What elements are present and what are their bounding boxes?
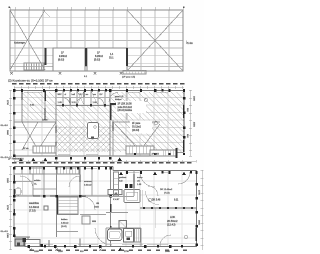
interior wall x110 — [109, 91, 111, 157]
stair hatch right — [126, 146, 154, 154]
left edge note b — [1, 157, 9, 159]
svg-text:2F Heimenzu: 2F Heimenzu — [8, 157, 24, 161]
band cell diagonals — [77, 91, 98, 105]
svg-text:3.31m2: 3.31m2 — [84, 185, 92, 187]
attic label left — [14, 41, 25, 45]
interior wall x127 — [126, 92, 128, 120]
dim tick line mid — [14, 160, 196, 163]
interior wall x22 — [21, 91, 23, 123]
door arc 1F bottom — [160, 235, 171, 246]
corner brace stub — [43, 10, 50, 17]
svg-text:20.50m2: 20.50m2 — [167, 219, 178, 223]
tick mark z — [10, 72, 13, 75]
attic room 2 — [87, 48, 127, 71]
wc fixture — [16, 188, 22, 195]
svg-text:(7.5J): (7.5J) — [164, 193, 170, 195]
wall bar A — [45, 48, 47, 65]
balcony band — [150, 150, 176, 156]
kitchen label — [113, 199, 120, 201]
door arc d — [109, 93, 118, 102]
svg-text:mono: mono — [137, 177, 143, 179]
svg-text:1820: 1820 — [193, 96, 195, 102]
svg-text:33.12m2: 33.12m2 — [132, 127, 142, 129]
kitchen counter — [108, 190, 140, 203]
svg-text:(1F yane 4.5): (1F yane 4.5) — [122, 77, 135, 79]
door arc 1F mono — [148, 186, 158, 196]
svg-text:2730: 2730 — [124, 251, 130, 253]
stairs 1F — [58, 197, 79, 215]
wall y228 bath — [106, 227, 141, 229]
right void V — [115, 124, 160, 151]
attic room 1 — [53, 48, 85, 71]
left rot dim 2F — [6, 100, 8, 136]
attic room1 label — [58, 52, 68, 62]
svg-text:2730: 2730 — [6, 205, 8, 211]
balcony dark bar — [176, 148, 178, 158]
floor marker sq — [119, 221, 127, 229]
left wall dark segs 1F — [13, 175, 15, 236]
wash label2 — [94, 203, 100, 209]
window line right top 1F — [128, 172, 168, 174]
svg-text:4550: 4550 — [193, 122, 195, 128]
svg-text:genkan: genkan — [119, 177, 127, 179]
dark beam bar — [110, 103, 122, 105]
stair hatch left — [33, 146, 56, 153]
dark wall seg right2 — [183, 140, 185, 152]
posts top wall 2F — [13, 89, 185, 92]
dark wall seg right1 — [183, 105, 185, 118]
genkan dark mark — [23, 238, 27, 242]
room labels 2F corridor — [58, 94, 103, 104]
interior wall x113 — [112, 120, 114, 156]
svg-text:12.43m2: 12.43m2 — [29, 205, 40, 209]
wall y196 genkan — [110, 196, 134, 198]
tick mark b — [94, 72, 97, 75]
closet hatch 1F a — [57, 167, 79, 174]
roof hatch center cross — [56, 126, 110, 152]
bottom tick marks — [29, 249, 102, 252]
circle mark 1F — [148, 198, 152, 202]
svg-text:2730: 2730 — [6, 100, 8, 106]
corridor wall y97 — [56, 97, 110, 99]
svg-text:hall: hall — [119, 181, 123, 183]
dk labels — [152, 200, 179, 202]
left dim line 1F — [9, 166, 12, 250]
svg-text:DK 12.43m2: DK 12.43m2 — [160, 189, 173, 191]
dim text row mid — [12, 162, 192, 164]
right rot dim 2F — [186, 96, 195, 138]
svg-text:WM: WM — [92, 221, 96, 223]
top plan title — [8, 79, 53, 83]
shoe strip — [114, 172, 119, 196]
wall x92 1F — [91, 170, 93, 196]
svg-text:oshiire: oshiire — [34, 179, 41, 182]
wall bar C — [126, 48, 128, 66]
room label LDK — [167, 215, 178, 227]
svg-text:WIC: WIC — [58, 94, 63, 96]
left void X — [22, 122, 56, 150]
2F outer wall top — [14, 90, 184, 92]
1F entry step bottom — [14, 236, 30, 238]
svg-text:12.88: 12.88 — [42, 120, 48, 122]
2F band dividers — [63, 91, 105, 106]
left rot dim 1F — [6, 178, 8, 239]
svg-text:3.31m2: 3.31m2 — [61, 223, 69, 225]
svg-text:3640: 3640 — [165, 251, 171, 253]
svg-text:3640: 3640 — [6, 130, 8, 136]
svg-text:GL+5.0: GL+5.0 — [1, 125, 9, 127]
hatch note left — [30, 105, 35, 107]
svg-text:K 4.97: K 4.97 — [113, 199, 120, 201]
1F outer wall top right — [113, 170, 197, 172]
posts y105 wall — [62, 104, 106, 106]
void top edge y122 left — [14, 121, 56, 123]
right dim line 2F — [189, 90, 192, 156]
posts left wall 2F — [13, 97, 16, 157]
closet hatch 1F b — [30, 167, 44, 174]
corridor wall y105 — [56, 105, 110, 107]
wall x22 lower — [21, 174, 23, 196]
faint module grid 1F — [14, 167, 196, 246]
roof hatch center — [56, 106, 110, 152]
genkan dark mark b — [17, 243, 20, 246]
2F outer wall left — [13, 91, 15, 158]
posts right wall 2F — [183, 97, 186, 138]
svg-text:3640: 3640 — [198, 220, 200, 226]
svg-text:(2) Koyabuse-zu (S=1:100) 2F u: (2) Koyabuse-zu (S=1:100) 2F ue — [8, 79, 53, 83]
posts left wall 1F — [13, 181, 16, 237]
window line top wall 1F — [31, 168, 97, 170]
circle mark 1F b — [184, 235, 188, 239]
1F outer wall right — [196, 171, 198, 248]
left X-brace — [10, 10, 45, 70]
2F bottom window lines — [58, 153, 98, 155]
corner mark NW — [9, 7, 11, 9]
roof grid horizontals — [10, 18, 183, 67]
svg-text:(5.0J): (5.0J) — [94, 59, 100, 62]
roof top ticks — [10, 7, 183, 10]
wall x30 1F — [29, 167, 31, 175]
1F outer wall left — [13, 167, 15, 238]
posts top wall 1F left — [13, 167, 112, 170]
door arc b — [76, 98, 84, 106]
wall y214 wash — [80, 214, 106, 216]
wall x80 1F — [79, 167, 81, 197]
svg-text:(12.4J): (12.4J) — [167, 223, 175, 227]
dim text row top — [12, 83, 185, 85]
porch post — [41, 244, 44, 247]
wall y181 left rooms — [14, 181, 33, 183]
posts right wall 1F — [195, 183, 198, 246]
wall x141 — [140, 228, 142, 247]
y196 wall dark segs — [33, 195, 86, 197]
1F outer wall bottom — [28, 246, 197, 248]
svg-text:9.11: 9.11 — [174, 200, 179, 202]
svg-text:koubai: koubai — [115, 99, 122, 101]
tick mark a — [59, 72, 62, 75]
window mullions bottom 1F — [49, 239, 80, 247]
posts top wall 1F right — [119, 171, 198, 175]
bathtub 1F — [108, 229, 123, 241]
door arc 1F wc — [69, 176, 80, 187]
1F outer wall top left — [14, 166, 113, 168]
svg-text:kaidan: kaidan — [61, 219, 68, 221]
posts kitchen wall — [143, 207, 193, 209]
svg-text:(20.0J) keisha: (20.0J) keisha — [118, 110, 133, 112]
svg-text:1820: 1820 — [58, 251, 64, 253]
shoe cabinet dark — [15, 239, 24, 246]
room label mono — [137, 177, 143, 186]
posts bottom wall 1F — [28, 245, 184, 251]
corner mark NE — [183, 7, 185, 9]
wall y189 left rooms — [33, 188, 56, 190]
interior wall x56 — [55, 91, 57, 157]
svg-text:yane 1.5: yane 1.5 — [115, 96, 124, 98]
room label 2F a — [115, 96, 124, 101]
door arc 1F right — [178, 172, 190, 184]
y196 wall posts — [13, 195, 112, 198]
eaves band note — [122, 77, 135, 79]
wall bar B — [85, 48, 87, 66]
bold label marks — [125, 184, 133, 188]
1F entry step side — [27, 237, 29, 247]
left edge note a — [1, 125, 9, 127]
roof hatch right — [110, 92, 184, 152]
wall y208 kitchen — [140, 207, 197, 209]
posts bottom wall 2F — [19, 153, 185, 161]
svg-text:hall: hall — [72, 94, 76, 96]
void label — [42, 120, 48, 122]
wall x110 1F — [110, 167, 112, 247]
roof border — [10, 10, 183, 71]
under-border note a — [84, 76, 88, 78]
wall x106 — [105, 228, 107, 247]
door arc a — [62, 98, 70, 106]
svg-text:senmen: senmen — [84, 181, 93, 183]
svg-text:UB: UB — [96, 203, 100, 205]
svg-text:(7.5J): (7.5J) — [29, 209, 36, 213]
room label stair 1F — [61, 219, 69, 228]
room label washitsu — [29, 201, 40, 213]
right dim line 1F — [201, 170, 204, 250]
svg-text:2730: 2730 — [198, 190, 200, 196]
dim line top — [14, 86, 184, 89]
svg-text:2F yane: 2F yane — [132, 123, 141, 125]
2F outer wall bottom — [14, 155, 176, 157]
wall y196 1F — [14, 195, 110, 197]
dark wall seg b — [110, 103, 112, 120]
svg-text:2F dn: 2F dn — [23, 148, 29, 150]
void top edge y122 right — [113, 121, 160, 123]
wall x22 1F — [21, 167, 23, 175]
wall x33 1F — [32, 174, 34, 196]
svg-text:washitsu: washitsu — [29, 201, 40, 205]
vanity 1F — [124, 229, 134, 243]
left dim line 2F — [9, 90, 12, 156]
bottom dim dash row — [30, 250, 187, 251]
attic ladder hatch — [24, 63, 44, 70]
tick mark c — [120, 72, 123, 75]
door arc 1F wash — [82, 197, 95, 210]
bottom dim text b — [124, 251, 171, 253]
svg-text:1820: 1820 — [6, 178, 8, 184]
window line bottom wall 1F — [44, 244, 168, 246]
wash label3 — [92, 221, 96, 223]
stair label 2F — [23, 148, 29, 150]
circle mark b — [144, 98, 147, 101]
roof hatch left — [22, 92, 56, 120]
wall x142 kitchen — [141, 190, 143, 208]
right wall dark seg — [195, 228, 197, 241]
laundry hatch — [135, 229, 141, 243]
svg-text:2F 4.55: 2F 4.55 — [152, 154, 160, 156]
mid plan title — [8, 157, 24, 161]
svg-text:DK 5.46: DK 5.46 — [152, 200, 161, 202]
room label hall1F — [113, 177, 127, 195]
bottom dim text a — [34, 251, 84, 253]
genkan box — [25, 240, 40, 247]
roof note right — [186, 41, 193, 46]
2F outer wall right — [183, 91, 185, 153]
2F top window lines — [24, 92, 168, 94]
wall y174 1F — [14, 173, 56, 175]
room label dining — [160, 189, 173, 195]
circle mark a — [154, 121, 158, 125]
attic room2 label b — [109, 54, 114, 60]
door arc 1F hall — [20, 176, 33, 189]
left edge note c — [1, 231, 9, 233]
tatami marker — [44, 206, 48, 210]
2F band dark segs — [70, 91, 84, 106]
attic room2 label — [94, 52, 104, 62]
svg-text:1365: 1365 — [6, 233, 8, 239]
right X-brace — [127, 10, 183, 71]
tub 2F — [88, 123, 99, 139]
2F wall bottom right — [155, 152, 184, 154]
2F big note block — [116, 101, 146, 113]
svg-text:2F LDK 16.56: 2F LDK 16.56 — [118, 104, 133, 106]
N-value note — [130, 121, 152, 134]
dark wall seg a — [44, 91, 46, 102]
svg-text:(20.0J): (20.0J) — [132, 130, 139, 132]
svg-text:1616: 1616 — [94, 207, 100, 209]
1F step x113 — [112, 167, 114, 171]
wall x134 1F — [133, 171, 135, 197]
door arc 1F kitchen — [140, 172, 155, 187]
door arc c — [96, 98, 104, 106]
washer rect — [82, 216, 90, 224]
wall x155 LDK — [154, 209, 156, 229]
svg-text:1820: 1820 — [34, 251, 40, 253]
eaves hatch band — [123, 71, 146, 75]
wall x44 1F — [43, 167, 45, 197]
wall x56 1F — [56, 167, 58, 238]
door arc 1F dining — [146, 192, 159, 205]
porch line 1F — [30, 243, 196, 245]
right dim text 1F — [198, 190, 200, 226]
balcony band note — [152, 154, 160, 156]
svg-text:yuka 33.12m2: yuka 33.12m2 — [118, 107, 133, 109]
svg-text:(2.0J): (2.0J) — [61, 226, 67, 228]
svg-text:33.1: 33.1 — [109, 58, 114, 60]
roof grid verticals — [15, 10, 169, 71]
faint module grid — [14, 91, 184, 156]
svg-text:LDK: LDK — [170, 215, 175, 219]
door arc 1F bath — [95, 228, 112, 245]
svg-text:(6.0J): (6.0J) — [58, 59, 64, 62]
room label wash — [84, 181, 93, 187]
room label closet — [34, 179, 41, 186]
stair room bottom wall — [57, 231, 78, 233]
